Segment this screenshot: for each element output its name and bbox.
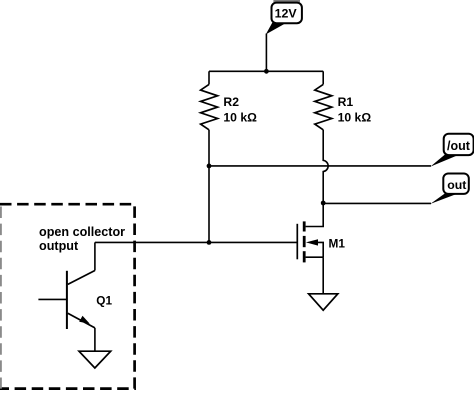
wire: Q1 emitter down to ground [94,328,96,351]
junction: 12V node on rail [264,69,269,74]
resistor R1 [315,84,332,129]
wire: +12V top rail [209,70,323,72]
ground (Q1 emitter) [79,351,111,368]
node flag out [430,174,468,204]
dashed box: clipped grey left edge [0,207,2,389]
wire: /out node down to gate node [208,166,210,243]
wire: out node down to M1 drain [306,203,324,227]
svg-text:open collector: open collector [39,225,125,239]
ground (M1 source) [309,294,338,310]
wire from 12V flag pointer down to rail [265,34,267,72]
svg-text:12V: 12V [275,7,298,21]
junction: gate node [207,240,212,245]
svg-text:/out: /out [447,139,471,153]
voltage net flag 12V [266,3,302,35]
svg-text:out: out [447,178,466,192]
svg-text:Q1: Q1 [96,294,112,308]
junction: out node at drain [321,201,326,206]
wire: out horizontal [323,202,431,204]
cropped grey remnant right of /out flag [471,137,474,152]
svg-text:output: output [39,239,79,253]
svg-text:M1: M1 [329,237,346,251]
wire: Q1 base lead [38,298,66,300]
wire: R1 bottom stem with hop over /out wire [323,130,328,203]
transistor Q1 (NPN) [67,271,95,330]
wire: Q1 collector vertical [94,242,96,270]
svg-text:10 kΩ: 10 kΩ [338,110,372,124]
wire: M1 source down to ground [322,257,324,294]
wire: R2 bottom stem to /out node [208,130,210,166]
svg-text:R2: R2 [223,95,239,109]
junction: /out node at R2 bottom [207,164,212,169]
dashed box: open collector output stage (top, right, bottom edges) [0,204,135,388]
transistor M1 (NMOS) [297,221,323,262]
wire: R2 top stem [208,71,210,84]
wire: /out horizontal [209,165,431,167]
wire: Q1 collector to M1 gate [95,241,297,243]
resistor R2 [201,84,218,129]
node flag /out [430,134,473,167]
svg-text:10 kΩ: 10 kΩ [223,110,257,124]
svg-text:R1: R1 [338,95,354,109]
cropped grey remnant above 12V flag [273,0,300,2]
wire: R1 top stem [322,71,324,84]
